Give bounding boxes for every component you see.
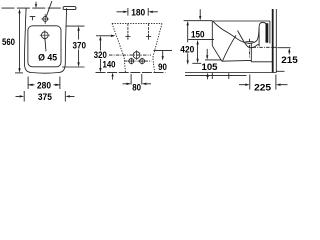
dimension arrow from above (199, 9, 201, 20)
bidet bottom flat (222, 59, 252, 62)
rear hump (259, 22, 266, 46)
side hole right (139, 58, 146, 65)
dimension line X2 (196, 40, 198, 63)
dimension 320 (96, 35, 116, 73)
svg-text:420: 420 (180, 45, 194, 56)
svg-text:280: 280 (37, 80, 51, 91)
extension top (184, 20, 213, 22)
svg-text:90: 90 (158, 62, 167, 73)
wall thick line (272, 9, 274, 73)
dimension 180 (117, 8, 158, 16)
bidet front edge (211, 21, 213, 46)
fixing stud cross right (146, 34, 151, 39)
dimension 375 (16, 91, 75, 102)
bidet outer outline (top view, slightly tapered) (24, 8, 66, 73)
floor line middle (96, 72, 166, 74)
bidet rear outline (dashed trapezoid) (112, 23, 162, 72)
extension small at X2 bottom (192, 62, 201, 64)
dimension arrow below floor at 105 (206, 73, 208, 80)
dimension 280 (28, 77, 60, 90)
svg-text:Ø 45: Ø 45 (38, 53, 58, 64)
drain axis vertical (dash-dot) (248, 39, 250, 58)
bidet deck top (212, 20, 270, 22)
stud centerline left (dash-dot) (127, 23, 129, 39)
wire leader to label (45, 39, 46, 52)
bidet back edge (269, 21, 271, 43)
wall line end curl (pill) (63, 7, 76, 10)
bidet inner rim outline (28, 26, 61, 67)
bidet bottom slope (212, 46, 222, 62)
node supply marker arrow at wall (35, 2, 37, 8)
drain cross tick (245, 41, 253, 43)
bowl far rim curve (238, 31, 259, 48)
svg-text:225: 225 (254, 82, 272, 93)
extension mid (188, 38, 214, 40)
holes axis (dash-dot) (124, 60, 152, 62)
fixing stud cross left (125, 34, 130, 39)
drain axis (dash-dot) (109, 54, 151, 56)
arrow below floor at 140 (111, 73, 113, 80)
side hole left (128, 58, 135, 65)
supply hole circle (42, 14, 49, 24)
wire wall line (dashed) (2, 7, 63, 9)
dimension 80 (123, 74, 152, 85)
dimension 560 line (15, 9, 23, 73)
svg-text:150: 150 (191, 29, 205, 40)
dimension 90 arrow (162, 51, 164, 61)
dimension 215 (277, 48, 290, 55)
front edge tick below floor (211, 73, 213, 80)
bowl funnel line (223, 35, 237, 61)
extension of bidet bottom (205, 59, 222, 61)
svg-text:375: 375 (38, 92, 53, 103)
svg-text:560: 560 (2, 37, 15, 48)
svg-text:215: 215 (281, 55, 298, 66)
rear bottom to wall (251, 60, 272, 62)
wall thin line (275, 9, 277, 73)
supply axis dash-dot (253, 46, 278, 48)
tap hole circle d45 (40, 30, 50, 40)
floor lower line (185, 74, 247, 76)
drain hole circle (133, 50, 140, 59)
stud centerline right (dash-dot) (148, 23, 150, 39)
svg-text:180: 180 (131, 8, 145, 19)
svg-text:370: 370 (73, 41, 87, 52)
svg-text:80: 80 (132, 83, 141, 94)
fixing mark (T) (30, 17, 36, 21)
fixing bracket (filled) (266, 23, 269, 43)
waste pipe side (250, 44, 252, 61)
svg-text:140: 140 (103, 60, 116, 71)
dimension arrow above 105 (206, 49, 208, 60)
dimension 370 (62, 26, 85, 67)
tick below floor (228, 73, 230, 79)
extension for 90 (154, 50, 173, 52)
wire leader from supply hole (46, 1, 52, 17)
svg-text:105: 105 (202, 62, 219, 73)
bowl near rim curve (213, 21, 259, 43)
dimension line 150-420 (187, 21, 189, 65)
floor line right (185, 72, 276, 74)
dimension 225 (239, 75, 288, 90)
floor line beyond wall (276, 70, 284, 72)
